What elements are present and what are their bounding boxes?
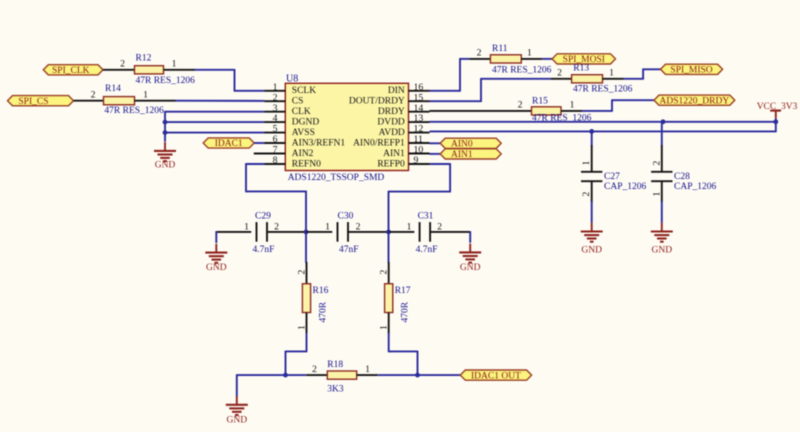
svg-text:47R RES_1206: 47R RES_1206 (136, 76, 196, 86)
svg-text:DGND: DGND (292, 118, 320, 128)
resistor R13 (551, 63, 633, 94)
wire (430, 231, 470, 233)
wire (164, 69, 196, 71)
wire (194, 69, 234, 71)
port IDAC1_OUT (460, 370, 531, 381)
wire (237, 374, 306, 376)
wire (267, 231, 306, 233)
svg-text:R16: R16 (313, 286, 329, 296)
svg-text:CAP_1206: CAP_1206 (674, 182, 716, 192)
wire (388, 313, 390, 334)
svg-text:2: 2 (91, 89, 96, 100)
wire (164, 111, 166, 142)
IC U8 ADS1220 (254, 73, 430, 183)
wire AVSS net (165, 132, 265, 134)
resistor R18 (306, 360, 377, 395)
wire (469, 231, 471, 243)
resistor R16 (296, 270, 328, 331)
svg-text:AIN2: AIN2 (292, 149, 314, 159)
svg-text:SPI_CLK: SPI_CLK (52, 66, 90, 76)
svg-text:7: 7 (273, 145, 278, 156)
port SPI_MOSI (552, 54, 615, 65)
resistor R15 (511, 96, 592, 123)
svg-text:1: 1 (527, 48, 532, 59)
svg-text:1: 1 (143, 89, 148, 100)
svg-text:GND: GND (652, 246, 673, 256)
wire CLK net (165, 111, 265, 113)
wire (215, 231, 217, 243)
wire (430, 153, 441, 155)
svg-text:R14: R14 (105, 84, 121, 94)
capacitor C27 (581, 161, 646, 197)
svg-text:1: 1 (651, 192, 662, 197)
junction (589, 129, 594, 134)
svg-text:10: 10 (414, 145, 424, 156)
svg-text:1: 1 (407, 221, 412, 232)
svg-text:11: 11 (414, 134, 424, 145)
junction (283, 373, 288, 378)
wire (103, 69, 135, 71)
capacitor C29 (244, 212, 279, 255)
svg-text:4.7nF: 4.7nF (416, 245, 438, 255)
svg-text:CLK: CLK (292, 107, 311, 117)
wire (542, 58, 552, 60)
junction (163, 130, 168, 135)
svg-text:IDAC1 OUT: IDAC1 OUT (471, 371, 521, 381)
svg-text:47R RES_1206: 47R RES_1206 (492, 65, 552, 75)
svg-text:2: 2 (274, 221, 279, 232)
svg-text:2: 2 (477, 48, 482, 59)
svg-text:2: 2 (379, 270, 390, 275)
wire (388, 232, 390, 263)
svg-text:C28: C28 (674, 172, 690, 182)
port ADS1220_DRDY (654, 95, 735, 106)
resistor R12 (120, 54, 195, 87)
resistor R17 (379, 270, 411, 331)
svg-text:R17: R17 (395, 286, 411, 296)
resistor R14 (91, 84, 164, 116)
svg-text:SCLK: SCLK (292, 86, 316, 96)
svg-text:VCC_3V3: VCC_3V3 (757, 102, 798, 112)
wire (389, 231, 415, 233)
svg-text:47R RES_1206: 47R RES_1206 (573, 84, 633, 94)
svg-text:U8: U8 (286, 73, 298, 84)
svg-text:ADS1220_DRDY: ADS1220_DRDY (660, 96, 730, 106)
wire (661, 181, 663, 202)
svg-text:1: 1 (581, 161, 592, 166)
svg-text:16: 16 (414, 82, 424, 93)
junction (661, 119, 666, 124)
svg-text:AIN0: AIN0 (451, 140, 473, 150)
svg-text:2: 2 (312, 364, 317, 375)
wire DGND net (165, 121, 265, 123)
wire REFP0 net (430, 163, 451, 165)
svg-text:4: 4 (273, 113, 278, 124)
svg-text:DVDD: DVDD (377, 118, 405, 128)
svg-text:DOUT/DRDY: DOUT/DRDY (349, 97, 405, 107)
svg-text:AIN1: AIN1 (383, 149, 405, 159)
junction (163, 120, 168, 125)
svg-text:2: 2 (581, 192, 592, 197)
wire DIN net (430, 90, 461, 92)
wire (74, 100, 104, 102)
wire (582, 110, 612, 112)
ground GND R18 (226, 396, 248, 426)
port AIN0 (440, 138, 501, 149)
svg-text:C27: C27 (604, 172, 620, 182)
power VCC_3V3 (757, 102, 798, 118)
svg-text:12: 12 (414, 124, 424, 135)
svg-text:ADS1220_TSSOP_SMD: ADS1220_TSSOP_SMD (288, 173, 385, 183)
svg-text:REFN0: REFN0 (292, 159, 321, 169)
svg-text:1: 1 (365, 364, 370, 375)
svg-text:47R RES_1206: 47R RES_1206 (104, 106, 164, 116)
svg-text:47nF: 47nF (339, 245, 359, 255)
svg-text:R12: R12 (136, 54, 152, 64)
port SPI_MISO (661, 64, 723, 75)
port IDAC1 (203, 138, 254, 149)
svg-text:3: 3 (273, 103, 278, 114)
svg-text:SPI_MISO: SPI_MISO (670, 66, 712, 76)
svg-text:15: 15 (414, 92, 424, 103)
capacitor C28 (651, 161, 716, 197)
svg-text:5: 5 (273, 124, 278, 135)
svg-text:1: 1 (325, 221, 330, 232)
svg-text:4.7nF: 4.7nF (253, 245, 275, 255)
svg-text:GND: GND (460, 263, 481, 273)
wire DVDD rail (430, 121, 776, 123)
junction (386, 230, 391, 235)
wire (591, 131, 593, 146)
capacitor C30 (325, 212, 361, 255)
svg-text:C29: C29 (255, 212, 271, 222)
svg-text:CAP_1206: CAP_1206 (604, 182, 646, 192)
wire (236, 374, 238, 396)
wire AVDD rail (430, 130, 776, 132)
wire REFN0 net (246, 163, 265, 165)
svg-text:SPI_CS: SPI_CS (18, 97, 48, 107)
svg-text:CS: CS (292, 97, 304, 107)
wire (378, 374, 461, 376)
svg-text:DRDY: DRDY (378, 107, 405, 117)
ground GND C28 (651, 223, 673, 256)
svg-text:470R: 470R (318, 301, 328, 322)
svg-text:2: 2 (651, 161, 662, 166)
svg-text:IDAC1: IDAC1 (215, 139, 243, 149)
wire DOUT net (430, 100, 482, 102)
svg-text:R11: R11 (492, 44, 508, 54)
svg-text:8: 8 (273, 155, 278, 166)
svg-text:AIN0/REFP1: AIN0/REFP1 (353, 138, 405, 148)
junction (773, 119, 778, 124)
capacitor C31 (407, 212, 443, 255)
svg-text:2: 2 (437, 221, 442, 232)
svg-text:R18: R18 (327, 360, 343, 370)
svg-text:R13: R13 (573, 63, 589, 73)
resistor R11 (469, 44, 551, 75)
svg-text:R15: R15 (532, 96, 548, 106)
port SPI_CS (8, 96, 74, 107)
wire (624, 78, 644, 80)
svg-text:9: 9 (414, 155, 419, 166)
wire (348, 231, 389, 233)
svg-text:GND: GND (581, 246, 602, 256)
svg-text:AIN3/REFN1: AIN3/REFN1 (292, 138, 346, 148)
svg-text:470R: 470R (401, 301, 411, 322)
junction (415, 373, 420, 378)
wire (430, 142, 441, 144)
svg-text:1: 1 (273, 82, 278, 93)
ground GND1 (154, 142, 176, 170)
svg-text:GND: GND (227, 416, 248, 426)
ground GND C29 (205, 244, 227, 273)
port SPI_CLK (43, 65, 103, 76)
wire DRDY net (430, 110, 511, 112)
wire (254, 142, 264, 144)
svg-text:AVSS: AVSS (292, 128, 315, 138)
wire (306, 231, 332, 233)
svg-text:AVDD: AVDD (379, 128, 405, 138)
junction (304, 230, 309, 235)
svg-text:2: 2 (120, 59, 125, 70)
svg-text:2: 2 (356, 221, 361, 232)
svg-text:GND: GND (155, 161, 176, 171)
svg-text:DIN: DIN (388, 86, 405, 96)
svg-text:13: 13 (414, 113, 424, 124)
svg-text:2: 2 (557, 67, 562, 78)
wire (135, 100, 177, 102)
svg-text:2: 2 (518, 100, 523, 111)
ground GND C27 (581, 223, 603, 256)
port AIN1 (440, 149, 501, 160)
svg-text:14: 14 (414, 103, 424, 114)
wire (216, 231, 251, 233)
wire (661, 121, 663, 146)
svg-text:GND: GND (206, 263, 227, 273)
wire (306, 313, 308, 334)
svg-text:1: 1 (609, 67, 614, 78)
ground GND C31 (459, 244, 481, 273)
svg-text:1: 1 (172, 59, 177, 70)
svg-text:C31: C31 (418, 212, 434, 222)
svg-text:C30: C30 (338, 212, 354, 222)
svg-text:2: 2 (273, 92, 278, 103)
svg-text:2: 2 (296, 270, 307, 275)
wire (175, 100, 264, 102)
svg-text:6: 6 (273, 134, 278, 145)
svg-text:AIN1: AIN1 (451, 150, 473, 160)
svg-text:REFP0: REFP0 (377, 159, 405, 169)
svg-text:1: 1 (244, 221, 249, 232)
wire (305, 232, 307, 263)
svg-text:3K3: 3K3 (327, 385, 344, 395)
svg-text:1: 1 (570, 100, 575, 111)
wire (591, 181, 593, 202)
